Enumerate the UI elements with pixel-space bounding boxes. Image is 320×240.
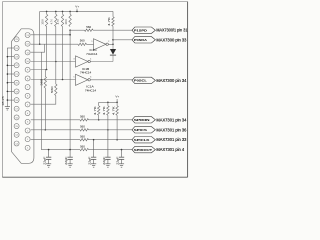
svg-text:100K: 100K bbox=[41, 18, 44, 24]
svg-text:22pF: 22pF bbox=[102, 156, 106, 165]
junction on V+ bus bbox=[55, 11, 57, 13]
svg-text:560: 560 bbox=[80, 115, 85, 119]
svg-text:4.7K: 4.7K bbox=[111, 106, 115, 115]
J1 pin 6 bbox=[25, 93, 30, 98]
svg-text:22pF: 22pF bbox=[43, 156, 47, 165]
ground bus stub bbox=[6, 105, 8, 107]
svg-text:560: 560 bbox=[39, 78, 43, 85]
J1 pin 16 bbox=[14, 115, 19, 120]
svg-text:560: 560 bbox=[50, 86, 54, 93]
capacitor C1 22pF bbox=[46, 150, 51, 164]
wire jog to R8 560 bbox=[45, 70, 46, 77]
resistor R1 stub bbox=[46, 11, 48, 14]
resistor R12 stub bbox=[116, 102, 118, 106]
svg-text:4.7K: 4.7K bbox=[93, 106, 97, 115]
junction R4/flag1 row bbox=[69, 29, 71, 31]
resistor R2 4.7K bbox=[55, 14, 57, 26]
wire pin2 row left bbox=[41, 149, 80, 151]
connector J1 DB25 shell bbox=[12, 29, 34, 164]
wire R8 down to SPICS row bbox=[44, 88, 46, 130]
junction ground bus bbox=[7, 82, 9, 84]
wire pin9 row to IC1A input bbox=[31, 79, 76, 81]
junction on V+ bus bbox=[69, 11, 71, 13]
wire IC1A output to flag P0SCL bbox=[91, 79, 133, 81]
svg-text:MAX7300 pin 34: MAX7300 pin 34 bbox=[156, 78, 187, 83]
svg-text:MAX7301 pin 33: MAX7301 pin 33 bbox=[156, 137, 187, 142]
junction flag2 tap bbox=[112, 39, 114, 41]
J1 pin 25 bbox=[14, 37, 19, 42]
junction IC1C out/flag2/diode bbox=[112, 44, 114, 46]
J1 pin 1 bbox=[25, 145, 30, 150]
wire IC1C output bbox=[108, 43, 113, 45]
svg-text:MAX7301 pin 34: MAX7301 pin 34 bbox=[156, 117, 187, 122]
J1 pin 1 bbox=[25, 137, 30, 142]
J1 pin 14 bbox=[14, 141, 19, 146]
svg-text:MAX7301 pin 36: MAX7301 pin 36 bbox=[156, 127, 187, 132]
resistor R6 560 bbox=[85, 29, 94, 31]
net flag SPIDIN / MAX7301 pin 34 bbox=[132, 117, 155, 123]
border frame bbox=[1, 2, 3, 178]
resistor R15 560 bbox=[80, 139, 89, 141]
wire R5 to gate out node bbox=[112, 26, 114, 44]
svg-text:22pF: 22pF bbox=[116, 156, 120, 165]
junction cap C5 bbox=[121, 149, 123, 151]
resistor R1 100K bbox=[45, 14, 47, 26]
junction cap C2 bbox=[69, 149, 71, 151]
wire pin3 row left bbox=[31, 139, 80, 141]
J1 pin 4 bbox=[25, 111, 30, 116]
net flag SPIDOUT / MAX7301 pin 4 bbox=[132, 146, 155, 152]
wire pin5 row left bbox=[31, 119, 80, 121]
wire ground pin 23 bbox=[7, 56, 14, 58]
J1 pin 22 bbox=[14, 63, 19, 68]
power V+ riser wire bbox=[76, 9, 78, 12]
net flag SPICS / MAX7301 pin 36 bbox=[132, 127, 155, 133]
diode D1 bbox=[112, 44, 114, 49]
wire R1 tail bbox=[46, 27, 48, 70]
J1 pin 2 bbox=[25, 128, 30, 133]
wire pin4 row to flag bbox=[89, 129, 133, 131]
junction R3 pullup on IC1A input bbox=[62, 79, 64, 81]
svg-text:SPIDOUT: SPIDOUT bbox=[134, 148, 153, 152]
resistor R14 560 bbox=[80, 129, 89, 131]
J1 pin 12 bbox=[25, 41, 30, 46]
resistor R11 4.7K bbox=[107, 106, 109, 116]
resistor R4 stub bbox=[69, 11, 71, 14]
junction on V+ bus bbox=[46, 11, 48, 13]
junction bus drop on IC1C row bbox=[39, 43, 41, 45]
wire to flag P0SDA bbox=[113, 39, 133, 41]
wire R12 tail bbox=[116, 115, 118, 139]
J1 pin 7 bbox=[25, 85, 30, 90]
junction ground bus bbox=[7, 56, 9, 58]
wire 560 to gate IC1C input bbox=[87, 43, 94, 45]
svg-text:4.7K: 4.7K bbox=[107, 17, 111, 26]
svg-text:P0SDA: P0SDA bbox=[134, 38, 147, 42]
wire ground pin 21 bbox=[7, 73, 14, 75]
resistor R13 560 bbox=[80, 119, 89, 121]
resistor R11 stub bbox=[107, 102, 109, 106]
wire R11 tail bbox=[107, 115, 109, 130]
wire ground pin 19 bbox=[7, 90, 14, 92]
wire 560 to flag P1SPD bbox=[93, 29, 133, 31]
wire pin3 row to flag bbox=[89, 139, 133, 141]
junction R2 pullup on IC1B input bbox=[55, 61, 57, 63]
J1 pin 11 bbox=[25, 50, 30, 55]
J1 pin 17 bbox=[14, 106, 19, 111]
wire R10 tail bbox=[98, 115, 100, 120]
J1 pin 10 bbox=[25, 59, 30, 64]
net flag P0SDA / MAX7300 pin 33 bbox=[132, 37, 155, 43]
svg-text:18-25: 18-25 bbox=[1, 96, 5, 106]
wire pin2 row to flag bbox=[89, 149, 133, 151]
resistor R7 560 bbox=[78, 43, 87, 45]
wire pin12 row to 560 bbox=[31, 43, 78, 45]
J1 pin 3 bbox=[25, 119, 30, 124]
resistor R3 stub bbox=[62, 11, 64, 14]
J1 pin 21 bbox=[14, 72, 19, 77]
inverter gate IC1C bbox=[94, 39, 109, 50]
J1 pin 15 bbox=[14, 124, 19, 129]
long vertical wire flag1 net to SPIDOUT row bbox=[69, 30, 71, 149]
resistor R9 560 bbox=[55, 84, 57, 96]
ground bus vertical wire bbox=[6, 48, 8, 105]
wire pin5 row to flag bbox=[89, 119, 133, 121]
resistor R4 100K bbox=[69, 14, 71, 26]
svg-text:MAX7300 pin 33: MAX7300 pin 33 bbox=[156, 37, 187, 42]
junction on V+ bus bbox=[76, 11, 78, 13]
long vertical wire pin11 row to SPIDOUT row bbox=[40, 52, 42, 149]
wire pin10 row to IC1B input bbox=[31, 61, 76, 63]
svg-text:MAX7300/1 pin 31: MAX7300/1 pin 31 bbox=[156, 28, 187, 33]
J1 pin 8 bbox=[25, 76, 30, 81]
svg-text:100K: 100K bbox=[65, 18, 68, 24]
junction ground bus bbox=[7, 65, 9, 67]
ground symbol left bus bbox=[5, 107, 10, 110]
resistor R12 4.7K bbox=[116, 106, 118, 116]
wire pin4 row left bbox=[31, 129, 80, 131]
inverter gate IC1B bbox=[76, 56, 91, 67]
junction on V+ bus bbox=[62, 11, 64, 13]
junction on bottom bus bbox=[107, 102, 109, 104]
junction ground bus bbox=[7, 99, 9, 101]
resistor R10 4.7K bbox=[98, 106, 100, 116]
net flag P1SPD / MAX7300-1 pin 31 bbox=[132, 27, 155, 33]
J1 pin 18 bbox=[14, 98, 19, 103]
junction V+ riser bbox=[116, 102, 118, 104]
junction R1/pin row bbox=[46, 69, 48, 71]
svg-text:SPICS: SPICS bbox=[134, 128, 147, 132]
wire ground pin 18 bbox=[7, 99, 14, 101]
svg-text:74HC14: 74HC14 bbox=[86, 52, 98, 56]
svg-text:74HC14: 74HC14 bbox=[85, 88, 97, 92]
junction ground bus bbox=[7, 73, 9, 75]
resistor R5 stub bbox=[112, 11, 114, 16]
junction R12/SPICLK row bbox=[116, 139, 118, 141]
capacitor C2 22pF bbox=[67, 150, 72, 164]
J1 pin 23 bbox=[14, 54, 19, 59]
svg-text:22pF: 22pF bbox=[88, 156, 92, 165]
wire diode cathode to IC1B output bbox=[90, 61, 113, 63]
J1 pin 5 bbox=[25, 102, 30, 107]
J1 pin 9 bbox=[25, 67, 30, 72]
svg-text:74HC14: 74HC14 bbox=[80, 71, 92, 75]
wire pin13 row bbox=[31, 34, 70, 36]
svg-text:V+: V+ bbox=[75, 4, 79, 8]
svg-text:560: 560 bbox=[86, 25, 91, 29]
junction R10/SPIDIN row bbox=[98, 119, 100, 121]
wire to R9 560 bbox=[55, 62, 57, 85]
top V+ bus wire bbox=[40, 10, 113, 12]
svg-text:4.7K: 4.7K bbox=[51, 19, 54, 24]
junction ground bus bbox=[7, 91, 9, 93]
junction cap C1 bbox=[48, 149, 50, 151]
bus drop wire to IC1C input row bbox=[39, 11, 41, 44]
svg-text:4.7K: 4.7K bbox=[102, 106, 106, 115]
inverter gate IC1A bbox=[76, 74, 91, 85]
net flag SPICLK / MAX7301 pin 33 bbox=[132, 137, 155, 143]
wire R2 tail bbox=[55, 27, 57, 62]
capacitor C3 22pF bbox=[91, 140, 96, 164]
wire ground pin 22 bbox=[7, 64, 14, 66]
J1 pin 20 bbox=[14, 80, 19, 85]
wire ground pin 24 bbox=[7, 47, 14, 49]
wire pin11 step up bbox=[31, 44, 45, 52]
resistor R2 stub bbox=[55, 11, 57, 14]
svg-text:MAX7301 pin 4: MAX7301 pin 4 bbox=[156, 147, 184, 152]
svg-text:P0SCL: P0SCL bbox=[134, 79, 147, 83]
resistor R3 4.7K bbox=[61, 14, 63, 26]
capacitor C5 22pF bbox=[119, 150, 124, 164]
J1 pin 24 bbox=[14, 46, 19, 51]
wire R9 to pin row k8 bbox=[31, 96, 56, 105]
svg-text:4.7K: 4.7K bbox=[57, 19, 60, 24]
resistor R16 560 bbox=[80, 148, 89, 150]
junction on SPICS row bbox=[45, 129, 47, 131]
svg-text:SPICLK: SPICLK bbox=[134, 138, 150, 142]
junction cap C3 bbox=[93, 139, 95, 141]
svg-text:SPIDIN: SPIDIN bbox=[134, 118, 150, 122]
resistor R5 4.7K bbox=[112, 17, 114, 27]
J1 pin 13 bbox=[25, 33, 30, 38]
resistor R10 stub bbox=[98, 102, 100, 106]
wire pin13 row rise to flag1 net bbox=[69, 30, 71, 35]
bottom V+ bus wire bbox=[99, 101, 117, 103]
net flag P0SCL / MAX7300 pin 34 bbox=[132, 77, 155, 83]
svg-text:560: 560 bbox=[80, 135, 85, 139]
J1 pin 14 bbox=[14, 132, 19, 137]
svg-text:560: 560 bbox=[80, 39, 85, 43]
power V+ riser 2 bbox=[116, 99, 118, 102]
wire pin row k4 bbox=[31, 69, 47, 71]
junction pin13 row bbox=[69, 34, 71, 36]
resistor R8 560 bbox=[44, 77, 46, 89]
wire R3 tail bbox=[62, 27, 64, 80]
svg-text:22pF: 22pF bbox=[64, 156, 68, 165]
wire ground pin 20 bbox=[7, 82, 14, 84]
wire to series R6 560 bbox=[70, 29, 84, 31]
capacitor C4 22pF bbox=[105, 130, 110, 164]
junction R11/SPICS row bbox=[107, 129, 109, 131]
svg-text:560: 560 bbox=[80, 125, 85, 129]
svg-text:V+: V+ bbox=[115, 94, 119, 98]
J1 pin 19 bbox=[14, 89, 19, 94]
svg-text:P1SPD: P1SPD bbox=[134, 28, 147, 32]
svg-text:560: 560 bbox=[80, 145, 85, 149]
